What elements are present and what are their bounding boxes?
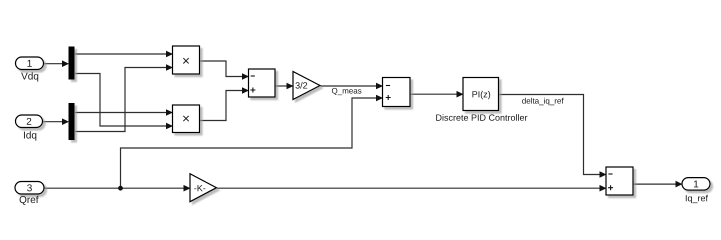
sum S2 [383, 78, 411, 107]
wire Qref port to gain -K- [45, 185, 191, 192]
product P1 [173, 46, 200, 74]
outport 1 [682, 178, 710, 191]
wire sum1 to gain 3/2 [276, 83, 294, 90]
PID block U1 PI(z) [463, 78, 499, 111]
label Idq [24, 131, 36, 140]
inport 1 [16, 57, 44, 70]
wire delta_iq_ref PI(z) to sum3 minus input [499, 95, 607, 178]
junction on Qref wire [118, 186, 123, 191]
wire Q_meas gain 3/2 to sum2 minus input [321, 83, 384, 90]
gain 3/2 [293, 72, 320, 100]
demux D1 [69, 47, 75, 80]
label Qref [20, 196, 39, 205]
inport 2 [16, 115, 43, 128]
gain -K- [190, 174, 217, 202]
wire Idq port to demux2 [43, 118, 69, 125]
demux D2 [69, 103, 75, 140]
label Q_meas [332, 88, 362, 95]
label Vdq [21, 72, 38, 81]
product P2 [173, 105, 200, 133]
wire demux2 out1 Id to product2 in1 [75, 109, 173, 116]
wire Qref branch to sum2 plus input [121, 95, 384, 189]
wire product2 to sum1 plus input [200, 87, 249, 120]
wire product1 to sum1 minus input [200, 61, 249, 80]
wire demux1 out1 Vd to product1 in1 [75, 51, 173, 58]
label delta_iq_ref [522, 98, 563, 105]
wire Vdq port to demux1 [44, 60, 69, 67]
sum S3 [606, 167, 633, 195]
label Iq_ref [686, 195, 708, 203]
wire demux1 out2 Vq to product2 in2 [75, 74, 173, 130]
wire demux2 out2 Iq to product1 in2 [75, 64, 173, 131]
wire sum3 to outport Iq_ref [634, 181, 683, 188]
wire gain -K- to sum3 plus input [217, 185, 607, 192]
wire sum2 to PI(z) [411, 91, 464, 98]
label Discrete PID Controller [436, 114, 527, 121]
inport 3 [15, 182, 44, 195]
sum S1 [249, 69, 276, 97]
